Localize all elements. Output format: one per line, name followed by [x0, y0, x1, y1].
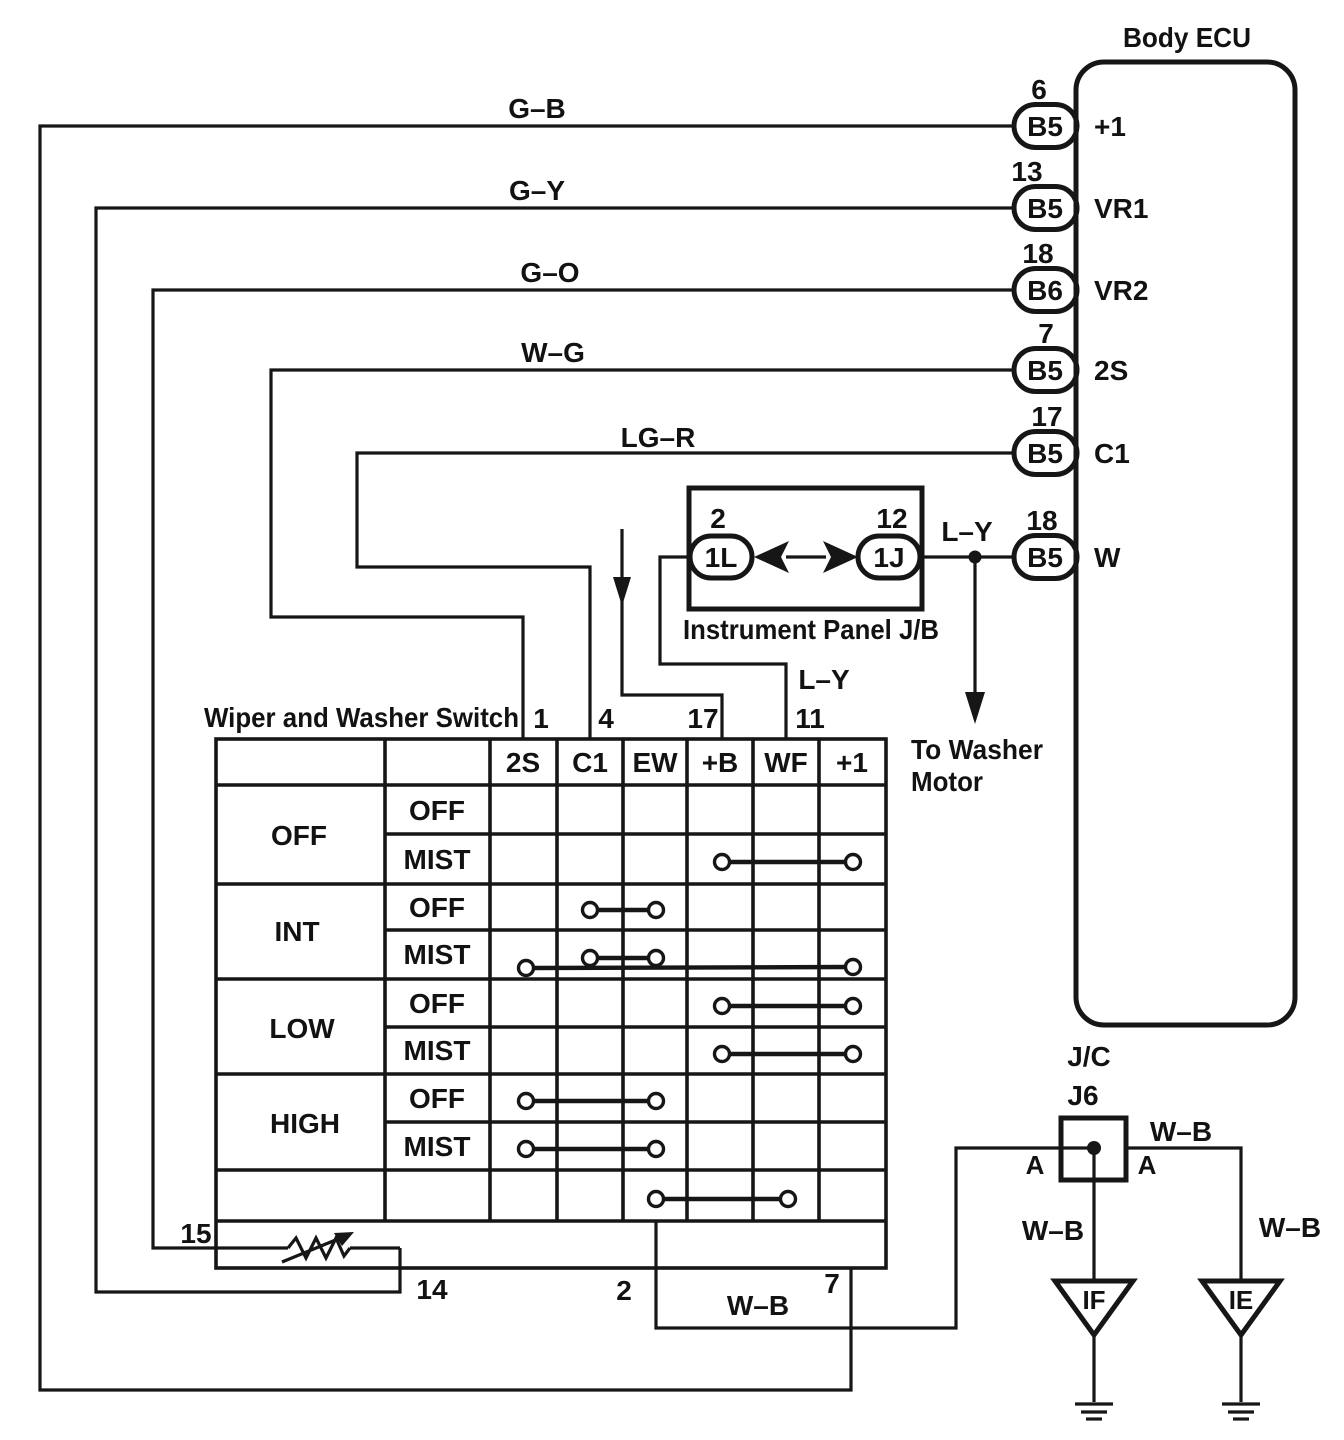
svg-text:J6: J6 [1067, 1080, 1098, 1111]
wire 1L to pin 11 [660, 557, 786, 739]
contact LOW/OFF +B to +1 [715, 999, 861, 1014]
svg-text:OFF: OFF [409, 1083, 465, 1114]
svg-text:7: 7 [1038, 318, 1054, 349]
svg-text:B5: B5 [1027, 438, 1063, 469]
group labels [269, 820, 340, 1139]
svg-text:C1: C1 [1094, 438, 1130, 469]
svg-text:2: 2 [710, 503, 726, 534]
svg-text:MIST: MIST [404, 1035, 471, 1066]
table bottom separator [216, 1219, 886, 1223]
svg-text:B5: B5 [1027, 355, 1063, 386]
svg-text:B6: B6 [1027, 275, 1063, 306]
svg-text:+B: +B [702, 747, 739, 778]
svg-text:4: 4 [598, 703, 614, 734]
svg-text:G–Y: G–Y [509, 175, 565, 206]
svg-text:G–O: G–O [520, 257, 579, 288]
svg-text:15: 15 [180, 1218, 211, 1249]
contact OFF/MIST +B to +1 [715, 855, 861, 870]
ground connector IF [1055, 1281, 1133, 1402]
contact HIGH/MIST 2S to EW [519, 1142, 664, 1157]
svg-text:OFF: OFF [409, 988, 465, 1019]
ground connector IE [1202, 1281, 1280, 1402]
svg-text:W–B: W–B [1022, 1215, 1084, 1246]
svg-text:W–B: W–B [1259, 1212, 1321, 1243]
ground symbol IF [1075, 1404, 1113, 1419]
svg-text:HIGH: HIGH [270, 1108, 340, 1139]
svg-text:1L: 1L [705, 542, 738, 573]
wire G-B [40, 126, 1014, 1390]
svg-text:To Washer: To Washer [911, 734, 1043, 765]
svg-text:INT: INT [274, 916, 319, 947]
connector B5 pin 7 (2S) [1014, 318, 1128, 392]
svg-text:OFF: OFF [409, 795, 465, 826]
svg-text:J/C: J/C [1067, 1041, 1111, 1072]
svg-text:Body ECU: Body ECU [1123, 22, 1251, 53]
svg-text:Wiper and Washer Switch: Wiper and Washer Switch [204, 702, 519, 733]
svg-text:14: 14 [416, 1274, 448, 1305]
svg-text:18: 18 [1022, 238, 1053, 269]
wire +B feed with down arrow [613, 529, 722, 739]
wire G-Y [96, 208, 1014, 1292]
svg-text:L–Y: L–Y [798, 664, 850, 695]
wire W-G [271, 370, 1014, 739]
Instrument Panel J/B box [683, 488, 939, 645]
switch table outer box [216, 739, 886, 1268]
connector B5 pin 6 (+1) [1014, 74, 1126, 148]
svg-text:+1: +1 [836, 747, 868, 778]
wire W-B right to IE [1126, 1148, 1241, 1281]
svg-text:EW: EW [632, 747, 678, 778]
connector B5 pin 18 (W) [1014, 505, 1121, 579]
svg-text:B5: B5 [1027, 111, 1063, 142]
svg-text:B5: B5 [1027, 542, 1063, 573]
wire to washer motor with arrow [965, 557, 985, 724]
wire LG-R [357, 453, 1014, 739]
junction block J6 [1061, 1118, 1126, 1180]
node dot in J6 [1087, 1141, 1101, 1155]
svg-text:6: 6 [1031, 74, 1047, 105]
svg-text:IF: IF [1082, 1285, 1105, 1315]
table column lines [385, 739, 819, 1221]
svg-text:G–B: G–B [508, 93, 566, 124]
wire G-O [153, 290, 1014, 1248]
wire W-B from pin 2 to J/C [656, 1148, 1091, 1328]
svg-text:OFF: OFF [271, 820, 327, 851]
svg-text:IE: IE [1229, 1285, 1254, 1315]
node junction dot [969, 551, 982, 564]
contact INT/MIST C1 to EW [583, 951, 664, 966]
svg-text:18: 18 [1026, 505, 1057, 536]
contact INT/MIST 2S to +1 [519, 960, 861, 976]
svg-text:LG–R: LG–R [621, 422, 696, 453]
Body ECU box [1076, 22, 1295, 1025]
arrows between 1L and 1J [754, 541, 858, 573]
svg-text:W–B: W–B [1150, 1116, 1212, 1147]
svg-text:MIST: MIST [404, 844, 471, 875]
svg-text:Motor: Motor [911, 766, 983, 797]
svg-text:2S: 2S [1094, 355, 1128, 386]
contact LOW/MIST +B to +1 [715, 1047, 861, 1062]
contact washer EW to WF [649, 1192, 796, 1207]
svg-text:LOW: LOW [269, 1013, 335, 1044]
svg-text:VR2: VR2 [1094, 275, 1148, 306]
svg-text:7: 7 [824, 1268, 840, 1299]
svg-text:OFF: OFF [409, 892, 465, 923]
svg-text:17: 17 [687, 703, 718, 734]
svg-text:B5: B5 [1027, 193, 1063, 224]
svg-text:A: A [1138, 1150, 1157, 1180]
svg-text:L–Y: L–Y [941, 516, 993, 547]
connector 1J pin 12 [858, 503, 920, 578]
connector B5 pin 17 (C1) [1014, 401, 1130, 475]
svg-text:12: 12 [876, 503, 907, 534]
connector 1L pin 2 [690, 503, 752, 578]
svg-text:11: 11 [795, 703, 825, 734]
wire J6 down to IF [1092, 1148, 1095, 1281]
svg-text:WF: WF [764, 747, 808, 778]
connector B5 pin 13 (VR1) [1011, 156, 1148, 230]
svg-text:W–G: W–G [521, 337, 585, 368]
svg-text:2S: 2S [506, 747, 540, 778]
sub row labels [404, 795, 471, 1162]
svg-text:W–B: W–B [727, 1290, 789, 1321]
svg-text:C1: C1 [572, 747, 608, 778]
table row lines full [216, 785, 886, 1170]
svg-text:MIST: MIST [404, 1131, 471, 1162]
svg-text:1J: 1J [873, 542, 904, 573]
svg-text:13: 13 [1011, 156, 1042, 187]
contact INT/OFF C1 to EW [583, 903, 664, 918]
table row lines partial [385, 834, 886, 1122]
svg-text:Instrument Panel J/B: Instrument Panel J/B [683, 614, 939, 645]
svg-text:W: W [1094, 542, 1121, 573]
contact HIGH/OFF 2S to EW [519, 1094, 664, 1109]
table header labels [506, 747, 868, 778]
ground symbol IE [1222, 1404, 1260, 1419]
svg-text:A: A [1026, 1150, 1045, 1180]
svg-text:1: 1 [533, 703, 549, 734]
svg-text:17: 17 [1031, 401, 1062, 432]
resistor (variable) inside switch [282, 1232, 400, 1262]
svg-text:2: 2 [616, 1275, 632, 1306]
svg-text:VR1: VR1 [1094, 193, 1148, 224]
connector B6 pin 18 (VR2) [1014, 238, 1148, 312]
wire L-Y from 1J to B5 W [922, 555, 1014, 558]
svg-text:MIST: MIST [404, 939, 471, 970]
svg-text:+1: +1 [1094, 111, 1126, 142]
